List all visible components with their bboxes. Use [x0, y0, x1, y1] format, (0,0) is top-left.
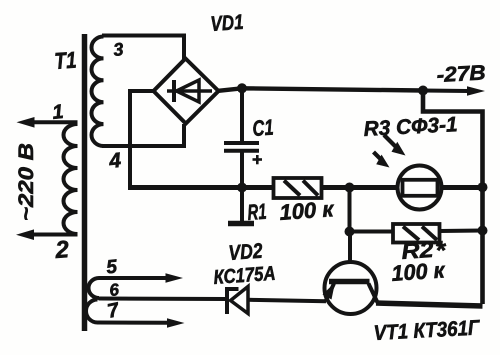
svg-text:Т1: Т1: [54, 47, 78, 74]
svg-text:-27В: -27В: [436, 61, 486, 87]
svg-text:R1: R1: [247, 199, 268, 225]
svg-text:100 к: 100 к: [391, 257, 447, 286]
svg-text:7: 7: [105, 299, 121, 323]
svg-text:2: 2: [54, 236, 71, 264]
svg-text:VD1: VD1: [210, 11, 245, 36]
svg-text:~220 В: ~220 В: [15, 143, 38, 221]
svg-text:6: 6: [108, 280, 120, 300]
svg-text:VT1 КТ361Г: VT1 КТ361Г: [373, 316, 481, 345]
svg-text:КС175А: КС175А: [213, 263, 276, 289]
svg-text:R3 СФ3-1: R3 СФ3-1: [363, 113, 458, 141]
svg-text:C1: C1: [252, 115, 275, 141]
svg-text:1: 1: [51, 101, 64, 124]
svg-text:VD2: VD2: [228, 240, 264, 265]
svg-text:4: 4: [107, 149, 122, 173]
svg-text:3: 3: [112, 39, 124, 60]
svg-text:100 к: 100 к: [279, 196, 336, 225]
svg-text:5: 5: [105, 256, 118, 278]
